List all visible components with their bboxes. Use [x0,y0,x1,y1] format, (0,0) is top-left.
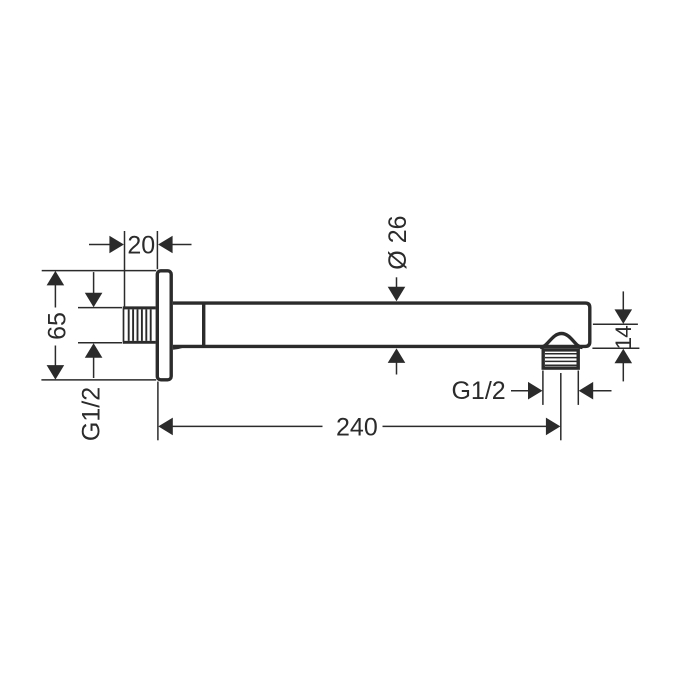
dimension 14 top arrow [622,291,624,310]
svg-text:20: 20 [127,232,155,260]
outlet G1/2 right arrow [593,390,612,392]
dimension 240 extension lines [158,373,561,440]
outlet G1/2 left arrow [511,390,529,392]
fillet at plate [173,347,182,349]
wall plate escutcheon [157,271,171,380]
wall thread dimension top arrow [93,272,95,293]
dimension Ø26 top arrow [396,277,398,288]
svg-text:G1/2: G1/2 [78,387,106,441]
dimension 65 bottom arrow [47,365,65,380]
outlet thread G1/2 [543,350,578,368]
dimension 240 left arrow [158,418,173,436]
svg-text:240: 240 [336,413,378,441]
tube seam line [202,303,205,346]
dimension 65 top arrow [47,271,65,286]
dimension 20 right arrow [172,244,192,246]
wall thread dimension bottom arrow [93,357,95,378]
outlet dome [540,334,582,348]
wall thread G1/2 hatched [123,307,156,344]
svg-text:14: 14 [611,326,636,350]
outlet G1/2 extension lines [543,371,578,405]
dimension 14 tick lines [592,324,639,348]
dimension 65 tick lines [41,271,156,380]
dimension 20 extension lines [125,231,158,307]
svg-text:Ø 26: Ø 26 [384,215,412,269]
dimension 14 bottom arrow [622,362,624,381]
svg-text:65: 65 [43,312,71,340]
wall thread dimension ticks [78,308,122,343]
shower arm tube [173,303,590,346]
svg-text:G1/2: G1/2 [451,377,505,405]
dimension 240 right arrow [546,418,561,436]
dimension Ø26 bottom arrow [396,362,398,375]
dimension 20 left arrow [89,244,110,246]
